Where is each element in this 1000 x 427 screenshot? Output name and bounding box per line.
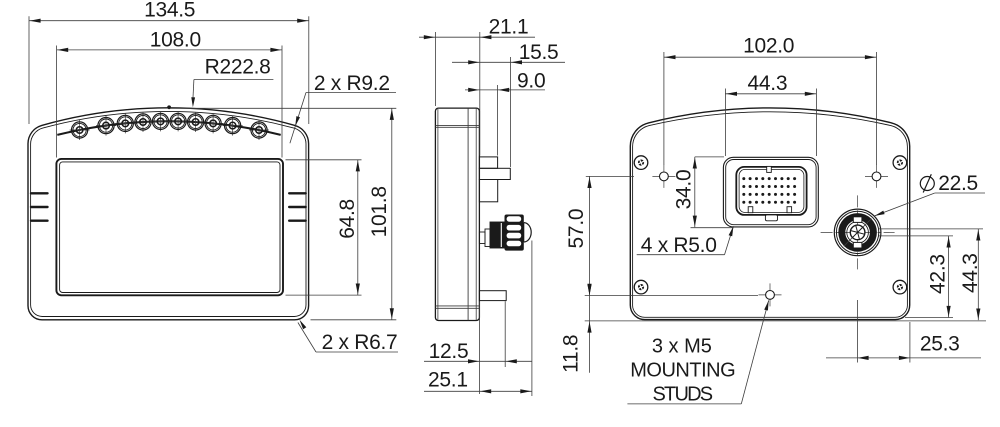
- svg-text:57.0: 57.0: [565, 209, 588, 249]
- svg-text:25.3: 25.3: [920, 333, 960, 356]
- svg-text:2 x R6.7: 2 x R6.7: [322, 331, 398, 354]
- svg-text:25.1: 25.1: [428, 369, 468, 392]
- svg-text:R222.8: R222.8: [205, 55, 271, 78]
- svg-text:9.0: 9.0: [517, 70, 545, 93]
- svg-text:21.1: 21.1: [489, 15, 529, 38]
- svg-text:4 x R5.0: 4 x R5.0: [641, 234, 717, 257]
- svg-text:108.0: 108.0: [150, 28, 201, 51]
- svg-text:11.8: 11.8: [560, 335, 583, 373]
- svg-text:2 x R9.2: 2 x R9.2: [314, 72, 390, 95]
- svg-text:3 x M5: 3 x M5: [652, 335, 712, 357]
- svg-text:STUDS: STUDS: [653, 383, 713, 405]
- svg-text:102.0: 102.0: [743, 34, 794, 57]
- svg-text:12.5: 12.5: [429, 340, 469, 363]
- svg-text:34.0: 34.0: [672, 170, 695, 210]
- svg-text:MOUNTING: MOUNTING: [630, 359, 735, 381]
- svg-text:22.5: 22.5: [938, 172, 978, 195]
- svg-text:44.3: 44.3: [959, 253, 982, 293]
- svg-text:15.5: 15.5: [519, 41, 559, 64]
- svg-text:101.8: 101.8: [368, 186, 391, 237]
- svg-text:42.3: 42.3: [926, 254, 949, 294]
- svg-text:44.3: 44.3: [748, 72, 788, 95]
- svg-text:134.5: 134.5: [144, 0, 195, 22]
- svg-text:64.8: 64.8: [336, 199, 359, 239]
